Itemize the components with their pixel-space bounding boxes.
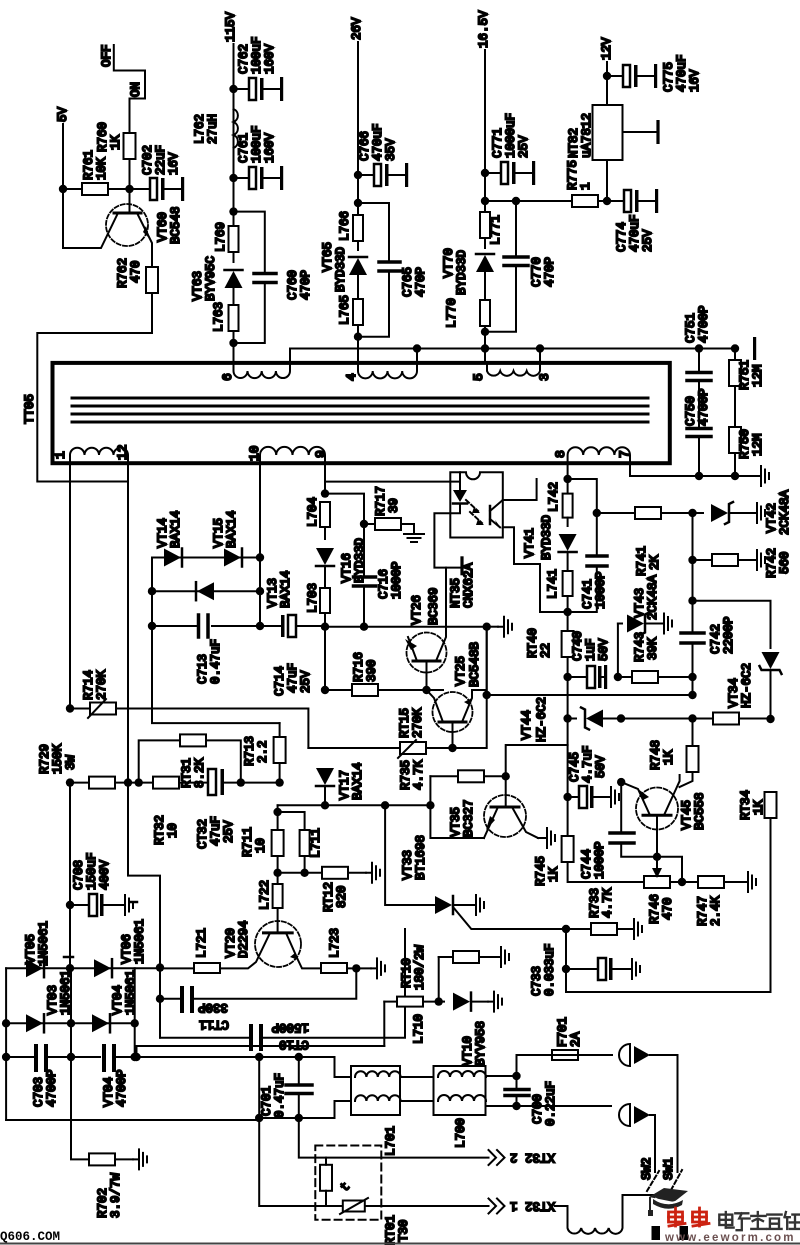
svg-text:C762: C762 bbox=[237, 44, 251, 74]
svg-text:BYV958: BYV958 bbox=[474, 1021, 488, 1066]
svg-text:400V: 400V bbox=[98, 859, 112, 890]
svg-text:R747: R747 bbox=[696, 896, 710, 926]
svg-text:270K: 270K bbox=[95, 669, 109, 700]
svg-text:R716: R716 bbox=[352, 652, 366, 682]
resistor R744 bbox=[621, 713, 771, 725]
svg-text:1000uF: 1000uF bbox=[504, 113, 518, 158]
ground C714 rail bbox=[483, 617, 513, 637]
svg-text:C708: C708 bbox=[72, 860, 86, 890]
svg-text:OFF: OFF bbox=[100, 44, 114, 67]
svg-text:39: 39 bbox=[387, 498, 401, 513]
resistor R751 bbox=[729, 349, 765, 428]
svg-text:R762: R762 bbox=[116, 258, 130, 288]
resistor R712 bbox=[278, 863, 380, 912]
resistor R743 bbox=[614, 632, 697, 683]
svg-text:4700P: 4700P bbox=[115, 1069, 129, 1107]
node 12V bbox=[600, 37, 614, 105]
winding pin8 pin7 bbox=[553, 447, 632, 463]
svg-text:L742: L742 bbox=[547, 482, 561, 512]
svg-text:12M: 12M bbox=[751, 364, 765, 387]
capacitor C700 bbox=[486, 1072, 558, 1126]
svg-text:R714: R714 bbox=[82, 670, 96, 700]
svg-text:VT06: VT06 bbox=[120, 934, 134, 964]
inductor L741 bbox=[546, 569, 573, 631]
node 16.5V bbox=[477, 10, 491, 173]
svg-text:0.22uF: 0.22uF bbox=[544, 1081, 558, 1126]
svg-text:VT42: VT42 bbox=[765, 503, 779, 533]
connector XT32 2 bbox=[489, 1150, 556, 1165]
svg-text:0.47uF: 0.47uF bbox=[273, 1073, 287, 1118]
top bus wire bbox=[290, 337, 756, 360]
svg-text:115V: 115V bbox=[224, 11, 238, 42]
svg-text:C742: C742 bbox=[709, 624, 723, 654]
resistor R702 bbox=[89, 1149, 147, 1218]
svg-text:R743: R743 bbox=[633, 632, 647, 662]
svg-text:C745: C745 bbox=[568, 752, 582, 782]
winding pin6 bbox=[220, 349, 290, 382]
svg-text:470uF: 470uF bbox=[675, 54, 689, 92]
svg-text:10: 10 bbox=[166, 823, 180, 838]
wire bottom return bbox=[566, 991, 771, 993]
diode V703 bbox=[2, 970, 139, 1032]
wire AC top rail bbox=[6, 1046, 384, 1120]
svg-text:L771: L771 bbox=[489, 215, 503, 245]
svg-text:R717: R717 bbox=[374, 486, 388, 516]
winding pin5 pin3 bbox=[471, 349, 552, 382]
diode V714 bbox=[152, 510, 260, 566]
svg-text:1: 1 bbox=[53, 451, 68, 459]
svg-text:BAX14: BAX14 bbox=[225, 510, 239, 548]
wire emitter rail bbox=[483, 677, 697, 699]
resistor R761 bbox=[63, 150, 130, 195]
capacitor C750 bbox=[684, 388, 711, 476]
capacitor C713 bbox=[148, 615, 264, 684]
svg-text:2A: 2A bbox=[569, 1031, 583, 1047]
svg-text:R751: R751 bbox=[738, 360, 752, 390]
svg-text:TT05: TT05 bbox=[23, 394, 37, 424]
svg-text:HZ-6C2: HZ-6C2 bbox=[740, 663, 754, 708]
svg-text:SW2: SW2 bbox=[640, 1157, 654, 1180]
svg-text:L700: L700 bbox=[454, 1118, 468, 1148]
wire opto emitter bbox=[503, 527, 568, 612]
resistor R775 bbox=[485, 160, 611, 207]
svg-text:C770: C770 bbox=[530, 257, 544, 287]
transistor V760 bbox=[63, 189, 183, 267]
watermark text 电子下载站 bbox=[719, 1212, 800, 1230]
svg-text:NT35: NT35 bbox=[449, 578, 463, 608]
svg-text:1000P: 1000P bbox=[594, 571, 608, 609]
watermark text 虫虫 bbox=[669, 1208, 710, 1226]
svg-text:www.eeworm.com: www.eeworm.com bbox=[664, 1232, 796, 1244]
inductor L770 bbox=[445, 298, 490, 363]
svg-text:470P: 470P bbox=[414, 267, 428, 297]
winding pin4 bbox=[344, 349, 417, 382]
svg-text:L741: L741 bbox=[546, 569, 560, 599]
capacitor C765 bbox=[354, 199, 428, 337]
svg-text:VT20: VT20 bbox=[224, 928, 238, 958]
svg-text:XT32 2: XT32 2 bbox=[510, 1150, 555, 1164]
svg-text:1uF: 1uF bbox=[584, 638, 598, 661]
inductor L723 bbox=[321, 928, 385, 978]
svg-text:3W: 3W bbox=[64, 754, 78, 770]
svg-text:VT41: VT41 bbox=[523, 528, 537, 558]
wire bridge left bbox=[5, 968, 7, 1120]
svg-text:R775: R775 bbox=[566, 160, 580, 190]
svg-text:R702: R702 bbox=[96, 1188, 110, 1218]
optocoupler N735 CNX62A bbox=[434, 472, 502, 608]
svg-text:BYD33D: BYD33D bbox=[334, 247, 348, 292]
transistor V745 BC558 bbox=[617, 775, 707, 857]
svg-text:160V: 160V bbox=[263, 43, 277, 74]
svg-text:6: 6 bbox=[220, 373, 235, 381]
svg-text:820: 820 bbox=[335, 885, 349, 908]
svg-text:L701: L701 bbox=[384, 1126, 398, 1156]
svg-text:390: 390 bbox=[365, 659, 379, 682]
svg-text:VT15: VT15 bbox=[212, 518, 226, 548]
svg-text:RT12: RT12 bbox=[322, 882, 336, 912]
svg-text:1000P: 1000P bbox=[593, 841, 607, 879]
svg-text:470uF: 470uF bbox=[628, 214, 642, 252]
svg-text:RT32: RT32 bbox=[153, 815, 167, 845]
resistor R750 bbox=[729, 427, 765, 476]
inductor L704 bbox=[306, 497, 330, 539]
svg-text:C766: C766 bbox=[358, 131, 372, 161]
svg-text:RT40: RT40 bbox=[526, 628, 540, 658]
svg-text:RT34: RT34 bbox=[739, 790, 753, 820]
svg-text:L765: L765 bbox=[338, 295, 352, 325]
resistor R747 bbox=[696, 872, 756, 926]
svg-text:26V: 26V bbox=[350, 17, 364, 40]
wire XT32-2 line bbox=[299, 1118, 489, 1158]
diode V715 bbox=[212, 510, 264, 566]
resistor R734 bbox=[739, 790, 777, 992]
svg-text:35V: 35V bbox=[384, 138, 398, 161]
zener V744 bbox=[520, 697, 625, 742]
svg-text:C751: C751 bbox=[684, 313, 698, 343]
svg-text:R760: R760 bbox=[96, 122, 110, 152]
wire pin10 bbox=[259, 463, 261, 626]
wire bbox=[233, 178, 235, 212]
svg-text:BT1698: BT1698 bbox=[414, 835, 428, 880]
svg-text:560: 560 bbox=[778, 551, 792, 574]
svg-text:BC548: BC548 bbox=[169, 206, 183, 244]
wire C714 rail bbox=[325, 626, 487, 628]
svg-text:C701: C701 bbox=[260, 1086, 274, 1116]
inductor L765 bbox=[338, 295, 363, 363]
svg-text:C716: C716 bbox=[377, 569, 391, 599]
wire pin7 return bbox=[630, 463, 769, 486]
svg-text:10: 10 bbox=[254, 838, 268, 853]
svg-text:4.7uF: 4.7uF bbox=[581, 745, 595, 783]
svg-text:47uF: 47uF bbox=[209, 816, 223, 846]
inductor L742 bbox=[547, 482, 573, 526]
diode V717 bbox=[316, 762, 365, 805]
svg-text:VT35: VT35 bbox=[449, 807, 463, 837]
resistor R762 bbox=[37, 258, 158, 482]
svg-text:0.033uF: 0.033uF bbox=[543, 943, 557, 996]
svg-text:C702: C702 bbox=[141, 145, 155, 175]
svg-text:1K: 1K bbox=[662, 749, 676, 765]
svg-text:470uF: 470uF bbox=[371, 123, 385, 161]
capacitor C751 bbox=[684, 305, 711, 427]
svg-text:VT13: VT13 bbox=[266, 578, 280, 608]
svg-text:R735: R735 bbox=[399, 760, 413, 790]
svg-text:4.7K: 4.7K bbox=[601, 887, 615, 918]
svg-text:2K: 2K bbox=[648, 554, 662, 570]
capacitor C702 bbox=[130, 145, 185, 201]
wire bbox=[357, 175, 359, 203]
capacitor C740 bbox=[568, 631, 611, 689]
resistor R731 bbox=[135, 734, 246, 788]
svg-text:C774: C774 bbox=[615, 222, 629, 252]
wire bbox=[152, 558, 280, 724]
svg-text:25V: 25V bbox=[517, 135, 531, 158]
plug upper bbox=[619, 1044, 678, 1172]
capacitor C745 bbox=[563, 719, 619, 837]
svg-text:C750: C750 bbox=[684, 396, 698, 426]
capacitor C770 bbox=[485, 197, 557, 332]
svg-text:L766: L766 bbox=[338, 211, 352, 241]
wire pin9 bbox=[324, 463, 326, 494]
node 26V bbox=[350, 17, 364, 175]
wire degauss coil bbox=[555, 1195, 655, 1234]
junction bbox=[125, 185, 133, 193]
svg-text:RT01: RT01 bbox=[384, 1215, 398, 1245]
capacitor C701 bbox=[260, 1057, 312, 1118]
inductor L722 bbox=[258, 880, 283, 933]
svg-text:VT70: VT70 bbox=[442, 248, 456, 278]
line filter L700 bbox=[434, 1066, 487, 1148]
wire L701-L700 links bbox=[400, 1077, 434, 1101]
svg-text:VT45: VT45 bbox=[680, 800, 694, 830]
svg-text:5: 5 bbox=[471, 373, 486, 381]
svg-text:ON: ON bbox=[129, 82, 143, 97]
potentiometer R746 bbox=[644, 853, 698, 924]
svg-text:R713: R713 bbox=[243, 736, 257, 766]
capacitor C741 bbox=[568, 509, 608, 612]
wire bridge right bbox=[134, 968, 136, 1057]
svg-text:2CK48A: 2CK48A bbox=[646, 574, 660, 620]
svg-text:R741: R741 bbox=[635, 546, 649, 576]
svg-text:50V: 50V bbox=[597, 638, 611, 661]
capacitor C775 bbox=[607, 54, 702, 92]
capacitor C708 bbox=[66, 783, 137, 969]
svg-text:R742: R742 bbox=[765, 548, 779, 578]
capacitor C774 bbox=[607, 189, 658, 252]
svg-text:C765: C765 bbox=[401, 267, 415, 297]
node 5V bbox=[56, 106, 70, 189]
svg-text:2.2: 2.2 bbox=[256, 740, 270, 763]
svg-text:4700P: 4700P bbox=[45, 1069, 59, 1107]
svg-text:C771: C771 bbox=[491, 128, 505, 158]
transistor V720 D2294 bbox=[220, 920, 321, 968]
svg-text:C713: C713 bbox=[196, 654, 210, 684]
svg-text:1K: 1K bbox=[547, 866, 561, 882]
capacitor C714 bbox=[260, 615, 325, 696]
wire pin1 bbox=[69, 463, 71, 709]
fuse F701 bbox=[517, 1017, 613, 1076]
zener V743 bbox=[618, 574, 672, 677]
svg-text:RT15: RT15 bbox=[398, 708, 412, 738]
capacitor C704 bbox=[102, 1046, 259, 1107]
resistor R735 bbox=[399, 759, 510, 838]
wire pin12 bbox=[128, 463, 160, 968]
svg-text:L763: L763 bbox=[212, 302, 226, 332]
bottom border bbox=[0, 1243, 800, 1245]
resistor R740 bbox=[526, 628, 574, 718]
transistor V735 BC327 bbox=[449, 776, 555, 848]
svg-text:1000P: 1000P bbox=[390, 561, 404, 599]
wire pin8 bbox=[567, 463, 569, 494]
svg-text:100uF: 100uF bbox=[250, 36, 264, 74]
svg-text:BYD33D: BYD33D bbox=[455, 250, 469, 295]
svg-text:4700P: 4700P bbox=[697, 305, 711, 343]
capacitor C761 bbox=[229, 125, 283, 190]
inductor L703 bbox=[306, 583, 330, 690]
inductor L766 bbox=[338, 203, 363, 250]
svg-text:12M: 12M bbox=[751, 433, 765, 456]
svg-text:Q606.COM: Q606.COM bbox=[0, 1230, 60, 1244]
inductor L711 bbox=[273, 808, 323, 877]
connector XT32 1 bbox=[489, 1199, 556, 1214]
svg-text:2CK48A: 2CK48A bbox=[778, 489, 792, 535]
resistor R716 bbox=[321, 652, 431, 696]
svg-text:VT34: VT34 bbox=[727, 678, 741, 708]
diode V716 bbox=[316, 538, 367, 588]
svg-text:C733: C733 bbox=[530, 966, 544, 996]
svg-text:VT33: VT33 bbox=[401, 850, 415, 880]
transformer T705 body bbox=[23, 363, 670, 463]
svg-text:VT17: VT17 bbox=[338, 770, 352, 800]
svg-text:180/2W: 180/2W bbox=[413, 944, 427, 990]
wire bridge mid bbox=[71, 968, 89, 1159]
inductor L771 bbox=[480, 201, 503, 248]
wire to R741 rail bbox=[568, 479, 597, 513]
svg-text:470P: 470P bbox=[543, 257, 557, 287]
svg-text:16V: 16V bbox=[167, 152, 181, 175]
svg-text:1: 1 bbox=[579, 182, 593, 190]
svg-text:SW1: SW1 bbox=[662, 1157, 676, 1180]
svg-text:27uH: 27uH bbox=[206, 114, 220, 144]
resistor R741 bbox=[597, 507, 697, 576]
svg-text:VT44: VT44 bbox=[520, 710, 534, 740]
transistor V725 BC548B bbox=[427, 627, 487, 748]
svg-text:VT65: VT65 bbox=[321, 242, 335, 272]
capacitor C733 bbox=[530, 929, 640, 996]
svg-text:8.2K: 8.2K bbox=[193, 757, 207, 788]
svg-text:50V: 50V bbox=[594, 755, 608, 778]
svg-text:BAX14: BAX14 bbox=[351, 762, 365, 800]
svg-text:R761: R761 bbox=[82, 150, 96, 180]
winding pin10 pin9 bbox=[247, 445, 328, 463]
capacitor C766 bbox=[354, 123, 408, 187]
svg-text:HZ-6C2: HZ-6C2 bbox=[535, 697, 549, 742]
node OFF bbox=[100, 44, 145, 98]
svg-text:BC548B: BC548B bbox=[468, 641, 482, 687]
svg-text:1N5061: 1N5061 bbox=[133, 919, 147, 964]
svg-text:1N5061: 1N5061 bbox=[124, 970, 138, 1015]
switch SW2 bbox=[640, 1157, 660, 1240]
svg-text:VT63: VT63 bbox=[191, 271, 205, 301]
zener V742 bbox=[693, 489, 793, 535]
resistor R745 bbox=[534, 836, 644, 886]
svg-text:270K: 270K bbox=[411, 707, 425, 738]
wire AC bottom rail bbox=[259, 1101, 351, 1118]
svg-text:VT04: VT04 bbox=[111, 985, 125, 1015]
svg-text:2.4K: 2.4K bbox=[709, 895, 723, 926]
diode V733 bbox=[385, 805, 484, 915]
svg-text:RT31: RT31 bbox=[180, 758, 194, 788]
svg-text:D2294: D2294 bbox=[237, 920, 251, 958]
svg-text:C740: C740 bbox=[571, 631, 585, 661]
svg-text:L770: L770 bbox=[445, 298, 459, 328]
diode V741 bbox=[523, 515, 577, 571]
resistor R713 bbox=[243, 723, 286, 787]
resistor R715 bbox=[308, 627, 486, 758]
svg-text:uA7812: uA7812 bbox=[580, 113, 594, 158]
svg-text:T30: T30 bbox=[397, 1219, 411, 1242]
svg-text:VT05: VT05 bbox=[24, 934, 38, 964]
svg-text:R750: R750 bbox=[738, 429, 752, 459]
resistor R733 bbox=[562, 887, 642, 939]
svg-text:8: 8 bbox=[553, 450, 568, 458]
capacitor C742 bbox=[681, 597, 736, 678]
svg-text:160V: 160V bbox=[263, 132, 277, 163]
capacitor C716 bbox=[354, 524, 405, 631]
svg-text:4: 4 bbox=[344, 373, 359, 381]
svg-text:22: 22 bbox=[539, 643, 553, 658]
capacitor C711 bbox=[156, 968, 356, 1038]
resistor R732 bbox=[153, 777, 208, 845]
regulator N782 uA7812 bbox=[567, 105, 660, 201]
svg-text:BAX14: BAX14 bbox=[279, 570, 293, 608]
node ON bbox=[129, 82, 145, 99]
svg-text:1500P: 1500P bbox=[271, 1020, 309, 1034]
svg-text:BC558: BC558 bbox=[693, 792, 707, 830]
node 115V bbox=[224, 11, 238, 189]
capacitor C744 bbox=[580, 782, 657, 879]
svg-text:25V: 25V bbox=[641, 229, 655, 252]
svg-text:C741: C741 bbox=[581, 579, 595, 609]
svg-text:F701: F701 bbox=[556, 1017, 570, 1047]
svg-text:L704: L704 bbox=[306, 497, 320, 527]
svg-text:470: 470 bbox=[129, 260, 143, 283]
svg-text:16V: 16V bbox=[688, 69, 702, 92]
capacitor C771 bbox=[481, 113, 535, 185]
svg-text:BC327: BC327 bbox=[462, 799, 476, 837]
svg-text:BYD33D: BYD33D bbox=[540, 515, 554, 560]
watermark logo cap bbox=[648, 1188, 688, 1216]
svg-text:BYV95C: BYV95C bbox=[204, 256, 218, 301]
wire AC rail to L701 bbox=[135, 1057, 351, 1077]
svg-text:150uF: 150uF bbox=[85, 852, 99, 890]
inductor L762 bbox=[193, 109, 238, 148]
svg-text:RT10: RT10 bbox=[400, 958, 414, 988]
resistor R714 bbox=[66, 669, 309, 748]
svg-text:C714: C714 bbox=[273, 666, 287, 696]
svg-text:470: 470 bbox=[661, 897, 675, 920]
svg-text:C700: C700 bbox=[531, 1094, 545, 1124]
svg-text:BAX14: BAX14 bbox=[169, 510, 183, 548]
degauss R701 T30 box bbox=[315, 1146, 411, 1245]
svg-text:CT11: CT11 bbox=[199, 1017, 229, 1031]
diode V706 bbox=[94, 919, 147, 977]
diode V710 bbox=[439, 992, 502, 1066]
svg-text:VT60: VT60 bbox=[156, 212, 170, 242]
svg-text:VT26: VT26 bbox=[410, 595, 424, 625]
svg-text:R733: R733 bbox=[588, 888, 602, 918]
svg-text:L769: L769 bbox=[214, 222, 228, 252]
